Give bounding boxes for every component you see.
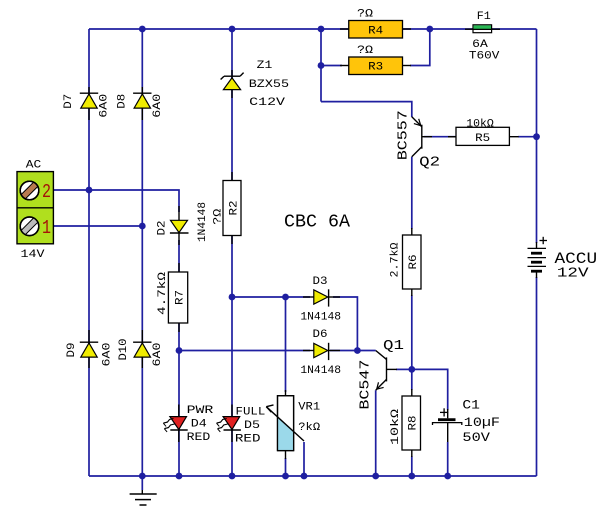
wire bottom rail [89, 475, 537, 477]
svg-text:BC547: BC547 [358, 360, 374, 410]
wire column B D8/D10 [141, 29, 143, 476]
diode D8 [117, 87, 164, 120]
svg-text:C1: C1 [462, 397, 480, 412]
svg-text:D10: D10 [118, 339, 130, 361]
wire base node to C1 [412, 369, 448, 410]
svg-text:BZX55: BZX55 [249, 79, 289, 91]
svg-text:10kΩ: 10kΩ [466, 119, 494, 131]
wire D6 node to Q1 collector [330, 350, 376, 352]
diode D2 [157, 202, 210, 245]
fuse F1 [465, 11, 500, 62]
zener diode Z1 [221, 60, 289, 109]
svg-text:FULL: FULL [236, 406, 266, 418]
svg-text:D7: D7 [63, 94, 75, 109]
wire row D6 anode [179, 350, 310, 352]
svg-text:D2: D2 [157, 221, 169, 236]
wire top rail [89, 28, 537, 30]
svg-text:10µF: 10µF [464, 415, 500, 430]
svg-text:12V: 12V [557, 265, 589, 281]
diode D9 [66, 330, 114, 368]
diode D7 [63, 87, 110, 120]
wire Q1 base to node [396, 368, 412, 370]
diode D10 [118, 330, 164, 368]
ground [130, 476, 157, 505]
wire R3 right to R4 right node [410, 29, 430, 66]
svg-text:?Ω: ?Ω [357, 45, 373, 57]
svg-text:14V: 14V [21, 249, 45, 261]
wire R3 node loop to Q2 emitter [321, 102, 412, 117]
wire column E VR1 top [285, 297, 287, 392]
svg-text:CBC 6A: CBC 6A [284, 212, 350, 232]
title CBC 6A [284, 212, 350, 232]
svg-text:R3: R3 [368, 62, 383, 74]
svg-text:1: 1 [42, 217, 51, 239]
svg-text:?kΩ: ?kΩ [298, 422, 320, 434]
wire row D3 anode [232, 296, 310, 298]
resistor R3 [340, 45, 411, 75]
svg-text:Q2: Q2 [419, 154, 440, 170]
svg-text:R5: R5 [475, 133, 490, 145]
resistor R7 [157, 263, 188, 332]
wire right rail [536, 29, 538, 243]
wire R6 bottom to base node [411, 295, 413, 369]
svg-text:D6: D6 [313, 329, 328, 341]
wire C1 bottom to rail [447, 442, 449, 476]
wire right rail below battery [536, 277, 538, 476]
svg-text:D4: D4 [191, 419, 207, 431]
wire VR1 wiper to rail [303, 442, 305, 476]
svg-text:C12V: C12V [249, 97, 285, 109]
transistor Q2 BC557 [396, 110, 457, 170]
resistor R5 [448, 119, 519, 146]
capacitor C1 [433, 397, 501, 445]
connector AC terminal block [17, 160, 53, 261]
wire D3 cathode loop down to D6 node [333, 297, 357, 351]
svg-text:2.7kΩ: 2.7kΩ [390, 242, 402, 277]
svg-text:?Ω: ?Ω [212, 208, 224, 224]
wire Q2 base to R5 [424, 136, 456, 138]
svg-text:4.7kΩ: 4.7kΩ [157, 271, 169, 315]
diode D3 [300, 276, 341, 324]
svg-text:T60V: T60V [469, 51, 500, 63]
svg-text:6A0: 6A0 [102, 343, 114, 367]
svg-text:?Ω: ?Ω [357, 9, 373, 21]
potentiometer VR1 [266, 390, 320, 459]
svg-text:D3: D3 [313, 276, 328, 288]
svg-text:D5: D5 [244, 420, 260, 432]
wire R3 left pin from node [321, 65, 342, 67]
svg-text:6A0: 6A0 [152, 94, 164, 118]
battery ACCU [528, 237, 598, 281]
wire VR1 bottom to rail [285, 458, 287, 476]
wire Q1 emitter to rail [375, 390, 377, 476]
resistor R8 [390, 389, 421, 457]
wire left rail column A [88, 29, 90, 476]
wire base node down to R8 [411, 369, 413, 390]
svg-text:RED: RED [187, 432, 211, 444]
LED D5 [217, 405, 266, 446]
wire R4/R3 left column [320, 29, 322, 102]
svg-text:R2: R2 [229, 201, 241, 216]
svg-text:10kΩ: 10kΩ [390, 408, 402, 445]
svg-text:R4: R4 [368, 26, 383, 38]
resistor R6 [390, 228, 422, 296]
wire R8 bottom to rail [411, 456, 413, 476]
transistor Q1 BC547 [358, 338, 404, 410]
diode D6 [300, 329, 341, 377]
svg-text:R7: R7 [175, 290, 187, 305]
svg-text:2: 2 [42, 181, 51, 203]
svg-text:1N4148: 1N4148 [197, 202, 209, 242]
svg-text:1N4148: 1N4148 [300, 365, 341, 377]
resistor R4 [340, 9, 411, 39]
svg-text:R8: R8 [408, 416, 420, 431]
wire column D Z1-R2-D5 [231, 29, 233, 476]
svg-text:F1: F1 [477, 11, 491, 23]
svg-text:Q1: Q1 [383, 338, 404, 354]
svg-text:PWR: PWR [187, 405, 214, 417]
svg-text:50V: 50V [462, 430, 490, 445]
wire terminal 2 to D2 column [54, 190, 180, 212]
wire R5 right to right rail [518, 136, 537, 138]
resistor R2 [212, 172, 241, 244]
LED D4 [163, 405, 214, 445]
svg-text:RED: RED [235, 433, 261, 445]
svg-text:1N4148: 1N4148 [300, 311, 341, 323]
wire Q2 collector down to R6 [411, 157, 413, 229]
svg-text:R6: R6 [408, 255, 420, 270]
svg-text:AC: AC [26, 160, 42, 172]
wire terminal 1 to column B [54, 225, 143, 227]
svg-text:6A0: 6A0 [99, 94, 111, 118]
svg-text:BC557: BC557 [396, 110, 412, 160]
svg-text:D9: D9 [66, 343, 78, 358]
svg-text:6A0: 6A0 [152, 343, 164, 367]
svg-text:6A: 6A [472, 39, 488, 51]
svg-text:Z1: Z1 [257, 60, 273, 72]
svg-text:D8: D8 [117, 94, 129, 109]
svg-text:VR1: VR1 [298, 402, 320, 414]
wire column C D2-R7-D4 [178, 240, 180, 476]
